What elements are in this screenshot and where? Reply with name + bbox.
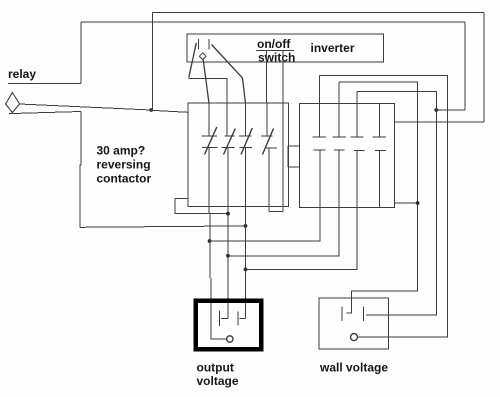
output switch bar B — [237, 312, 239, 326]
wire W2: diamond to contactor pin1 — [203, 60, 209, 104]
svg-text:contactor: contactor — [97, 172, 152, 186]
svg-text:inverter: inverter — [311, 41, 355, 55]
wire A: top horizontal — [152, 11, 483, 13]
wire W1: tick1 to contactor pin2 — [189, 43, 196, 77]
wire: contactor pin1 down to output lamp — [209, 147, 211, 339]
wire: contactor pin3 down to output box — [245, 147, 247, 318]
wire A: riser from relay node — [151, 12, 153, 110]
wire A: right edge drop — [483, 12, 485, 122]
output switch hook B (pin3) — [240, 318, 246, 320]
wire: cap3 bottom link — [246, 150, 358, 269]
node: dot pin2 coil return — [226, 212, 230, 216]
contactor switch 3 — [239, 103, 253, 154]
node: dot pin3 / cap3 link — [244, 268, 248, 272]
wire: relay label underline — [8, 83, 81, 85]
relay connector diamond — [6, 93, 20, 113]
wire: contactor pin2 down to output box — [227, 147, 229, 318]
wire: diamond to relay node — [20, 104, 151, 110]
wall lamp circle — [351, 334, 358, 341]
wire B: top horizontal to right side — [81, 21, 465, 23]
capacitor C4 — [373, 103, 386, 150]
contactor box K1 — [188, 103, 289, 207]
svg-text:wall voltage: wall voltage — [319, 361, 388, 375]
wire: cap2 top link to wall switch left — [339, 82, 417, 313]
inverter power block U3 — [300, 103, 395, 207]
node: dot pin2 / cap2 link — [226, 254, 230, 258]
wire W5: switch wire 2 down to coil tab — [282, 50, 284, 211]
on/off underline — [256, 49, 294, 51]
wall voltage box — [319, 298, 389, 349]
output lamp circle — [227, 336, 233, 342]
actuator diamond inside control box — [199, 53, 206, 60]
wire W3: tick2 diagonal to contactor pin3 — [212, 45, 246, 104]
node: dot at 417.6,203 — [416, 201, 420, 205]
output switch hook A (pin2) — [221, 318, 228, 320]
capacitor C3 — [350, 92, 364, 151]
node: relay junction dot — [149, 108, 153, 112]
wire: relay upper riser — [80, 22, 82, 84]
wire: coil tab bottom — [269, 211, 283, 213]
contact tick 2 inside control box — [208, 39, 210, 50]
node: dot pin3 / left loop — [244, 224, 248, 228]
output voltage box (thick) — [196, 301, 261, 349]
wire: pin1 to lamp — [211, 338, 227, 340]
wire: cap3 top link to wall switch right — [357, 92, 436, 315]
wire: coil return from contactor left edge — [175, 199, 228, 214]
svg-text:30 amp?: 30 amp? — [97, 144, 146, 158]
wire B: into node on vertical 436 — [436, 109, 465, 111]
svg-text:output: output — [197, 361, 234, 375]
wire: cap2 bottom link — [228, 150, 339, 256]
svg-text:reversing: reversing — [97, 157, 151, 171]
wire: inverter block right pin to wall drop — [394, 202, 417, 204]
capacitor C2 — [333, 82, 346, 150]
svg-text:on/off: on/off — [257, 37, 291, 51]
svg-text:relay: relay — [8, 67, 36, 81]
wire: cap1 top link to lamp line — [319, 76, 447, 338]
node: dot at 436,110 — [434, 108, 438, 112]
wire B: right drop — [464, 22, 466, 110]
contact tick 1 inside control box — [198, 39, 200, 50]
wire: relay node to contactor left edge — [151, 110, 188, 112]
wire: contactor pin4 down to coil tab — [268, 148, 270, 212]
wall switch bar right — [362, 306, 364, 321]
svg-text:voltage: voltage — [197, 374, 239, 388]
wall switch bar left — [341, 306, 343, 321]
capacitor C1 — [313, 76, 326, 150]
wire: relay lower lead — [9, 112, 81, 114]
wire: left loop drop — [80, 112, 81, 228]
wire: cap1 bottom link — [210, 150, 320, 241]
contactor switch 4 — [261, 103, 277, 154]
contactor switch 1 — [202, 103, 218, 154]
node: dot pin1 / cap1 link — [208, 239, 212, 243]
wire A: into inverter block right pin — [394, 121, 484, 123]
inverter control box U2 — [187, 34, 384, 62]
wire W4: switch wire 1 to contactor pin4 — [266, 51, 268, 103]
wire: left loop bottom run to pin3 node — [80, 226, 246, 227]
svg-text:switch: switch — [258, 51, 295, 65]
output switch bar A — [219, 311, 221, 327]
wire: cap4 bottom stub — [378, 150, 380, 208]
connector rect between contactor and inverter block — [288, 146, 299, 167]
contactor switch 2 — [222, 103, 236, 154]
